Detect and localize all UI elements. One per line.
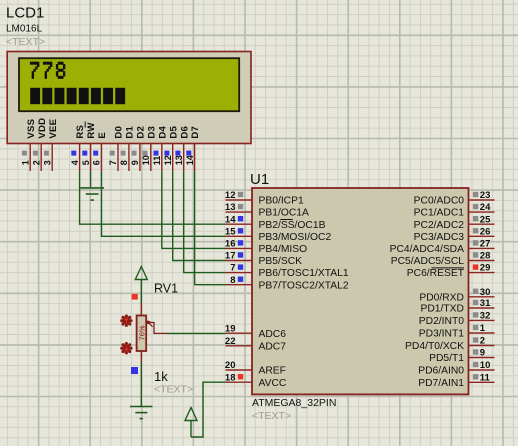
LCD pin 13 D6 xyxy=(174,126,190,171)
LCD pin 7 D0 xyxy=(108,126,124,171)
chip U1 pin 7 PB6/TOSC1/XTAL1 xyxy=(226,263,349,280)
LCD pin 4 RS xyxy=(70,124,86,171)
svg-text:PB6/TOSC1/XTAL1: PB6/TOSC1/XTAL1 xyxy=(259,268,349,279)
wire D7 LCD14 to U1-8 xyxy=(195,171,226,285)
RV1 wiper wire to ADC6 xyxy=(148,323,167,334)
svg-text:PB4/MISO: PB4/MISO xyxy=(259,244,308,255)
LCD pin 8 D1 xyxy=(119,125,135,171)
LCD pin 12 D5 xyxy=(163,125,179,171)
chip U1 pin 1 PD3/INT1 xyxy=(419,323,495,340)
svg-text:PD1/TXD: PD1/TXD xyxy=(421,304,465,315)
wire E LCD6 to U1-15 xyxy=(102,171,226,236)
wire D5 LCD12 to U1-17 xyxy=(173,171,226,261)
LCD pin 2 VDD xyxy=(31,118,47,171)
chip U1 pin 26 PC3/ADC3 xyxy=(414,226,495,243)
svg-text:8: 8 xyxy=(230,275,235,286)
wire RS LCD4 to U1-14 xyxy=(80,171,226,224)
svg-text:RS: RS xyxy=(75,124,86,138)
svg-text:D4: D4 xyxy=(157,125,168,138)
svg-text:19: 19 xyxy=(225,323,236,334)
svg-text:PB0/ICP1: PB0/ICP1 xyxy=(259,196,304,207)
wire RW LCD5 to ground xyxy=(90,171,92,187)
chip U1 pin 29 PC6/RESET xyxy=(407,263,495,280)
svg-text:1k: 1k xyxy=(154,369,168,384)
svg-text:PC1/ADC1: PC1/ADC1 xyxy=(414,208,465,219)
svg-text:PD4/T0/XCK: PD4/T0/XCK xyxy=(405,341,464,352)
svg-text:PC6/RESET: PC6/RESET xyxy=(407,268,465,279)
svg-text:RV1: RV1 xyxy=(154,282,178,296)
chip U1 pin 30 PD0/RXD xyxy=(419,287,494,304)
svg-text:D0: D0 xyxy=(114,126,125,139)
svg-text:18: 18 xyxy=(225,372,236,383)
resistor RV1 top lead xyxy=(140,303,142,316)
svg-text:PD2/INT0: PD2/INT0 xyxy=(419,316,464,327)
power terminal (AVCC) xyxy=(185,408,197,438)
chip U1 pin 27 PC4/ADC4/SDA xyxy=(390,239,495,256)
chip U1 pin 28 PC5/ADC5/SCL xyxy=(391,251,495,268)
svg-text:ATMEGA8_32PIN: ATMEGA8_32PIN xyxy=(252,397,336,409)
svg-text:ADC7: ADC7 xyxy=(259,341,287,352)
svg-text:22: 22 xyxy=(225,336,236,347)
wire D4 LCD11 to U1-16 xyxy=(162,171,226,248)
svg-text:AVCC: AVCC xyxy=(259,378,287,389)
chip U1 pin 32 PD2/INT0 xyxy=(419,311,495,328)
svg-text:14: 14 xyxy=(225,214,236,225)
svg-text:PD3/INT1: PD3/INT1 xyxy=(419,329,464,340)
svg-text:25: 25 xyxy=(480,214,491,225)
logic state square (RV1 top) xyxy=(132,294,138,300)
svg-text:17: 17 xyxy=(225,251,236,262)
LCD pin 3 VEE xyxy=(42,118,58,171)
svg-text:31: 31 xyxy=(480,298,491,309)
svg-text:RW: RW xyxy=(86,122,97,139)
svg-text:32: 32 xyxy=(480,311,491,322)
svg-text:76%: 76% xyxy=(137,325,146,340)
svg-text:PD0/RXD: PD0/RXD xyxy=(419,292,464,303)
svg-text:30: 30 xyxy=(480,287,491,298)
chip U1 pin 8 PB7/TOSC2/XTAL2 xyxy=(226,275,349,292)
RV1 wiper arrow xyxy=(147,321,153,327)
chip U1 pin 9 PD5/T1 xyxy=(429,348,494,365)
ground (LCD RW) xyxy=(80,188,104,200)
svg-text:LM016L: LM016L xyxy=(6,24,43,35)
svg-text:9: 9 xyxy=(130,160,140,165)
svg-text:1: 1 xyxy=(480,323,486,334)
power terminal (RV1 top) xyxy=(135,267,147,304)
wire wiper to U1 ADC6 xyxy=(167,332,226,334)
RV1 adjust up icon xyxy=(120,315,132,327)
LCD bargraph blocks xyxy=(30,88,125,104)
svg-text:<TEXT>: <TEXT> xyxy=(252,410,291,422)
svg-text:12: 12 xyxy=(163,155,173,165)
svg-text:29: 29 xyxy=(480,263,491,274)
chip U1 pin 10 PD6/AIN0 xyxy=(418,360,494,377)
svg-text:D2: D2 xyxy=(136,126,147,139)
chip U1 pin 17 PB5/SCK xyxy=(225,251,302,268)
svg-text:7: 7 xyxy=(230,263,235,274)
svg-text:3: 3 xyxy=(42,160,52,165)
svg-text:E: E xyxy=(97,132,108,139)
svg-text:1: 1 xyxy=(20,160,30,165)
svg-text:8: 8 xyxy=(119,160,129,165)
svg-text:23: 23 xyxy=(480,190,491,201)
LCD pin 5 RW xyxy=(81,122,97,172)
chip U1 pin 25 PC2/ADC2 xyxy=(414,214,495,231)
LCD pin 9 D2 xyxy=(130,126,146,171)
chip U1 pin 23 PC0/ADC0 xyxy=(414,190,495,207)
LCD pin 10 D3 xyxy=(141,126,157,171)
svg-text:12: 12 xyxy=(225,190,236,201)
chip U1 pin 16 PB4/MISO xyxy=(225,239,307,256)
svg-text:11: 11 xyxy=(152,156,162,166)
LCD screen xyxy=(19,58,239,111)
svg-text:D1: D1 xyxy=(125,125,136,138)
svg-text:ADC6: ADC6 xyxy=(259,329,287,340)
chip U1 pin 15 PB3/MOSI/OC2 xyxy=(225,226,332,243)
svg-text:PC0/ADC0: PC0/ADC0 xyxy=(414,196,465,207)
svg-text:D5: D5 xyxy=(168,125,179,138)
svg-text:VDD: VDD xyxy=(37,118,48,139)
wire AVCC power to U1 pin 18 xyxy=(191,382,226,437)
svg-text:7: 7 xyxy=(108,160,118,165)
svg-text:24: 24 xyxy=(480,202,491,213)
LCD LCD1 body xyxy=(7,52,251,144)
svg-text:5: 5 xyxy=(81,160,91,165)
ground (RV1) xyxy=(130,407,153,419)
chip U1 pin 11 PD7/AIN1 xyxy=(418,372,494,389)
resistor RV1 body xyxy=(137,316,147,352)
chip U1 pin 18 AVCC xyxy=(225,372,287,389)
LCD pin 14 D7 xyxy=(185,126,201,171)
svg-text:PC5/ADC5/SCL: PC5/ADC5/SCL xyxy=(391,256,465,267)
svg-text:9: 9 xyxy=(480,348,485,359)
svg-text:15: 15 xyxy=(225,226,236,237)
svg-text:PB2/SS/OC1B: PB2/SS/OC1B xyxy=(259,220,326,231)
chip U1 pin 13 PB1/OC1A xyxy=(225,202,309,219)
resistor RV1 bottom lead xyxy=(140,351,142,362)
LCD pin 11 D4 xyxy=(152,125,168,171)
svg-text:11: 11 xyxy=(480,372,491,383)
svg-text:VEE: VEE xyxy=(48,118,59,138)
svg-text:14: 14 xyxy=(185,155,195,165)
LCD pin 6 E xyxy=(92,132,108,171)
svg-text:28: 28 xyxy=(480,251,491,262)
svg-text:<TEXT>: <TEXT> xyxy=(6,36,45,48)
logic state square (RV1 bottom) xyxy=(131,367,138,374)
svg-text:PB3/MOSI/OC2: PB3/MOSI/OC2 xyxy=(259,232,332,243)
svg-text:13: 13 xyxy=(225,202,236,213)
svg-text:10: 10 xyxy=(141,155,151,165)
svg-text:D7: D7 xyxy=(190,126,201,139)
svg-text:D3: D3 xyxy=(146,126,157,139)
svg-text:16: 16 xyxy=(225,239,236,250)
svg-text:VSS: VSS xyxy=(26,118,37,138)
svg-text:PB7/TOSC2/XTAL2: PB7/TOSC2/XTAL2 xyxy=(259,280,349,291)
svg-text:26: 26 xyxy=(480,226,491,237)
chip U1 pin 14 PB2/SS/OC1B xyxy=(225,214,326,231)
svg-text:PD5/T1: PD5/T1 xyxy=(429,353,464,364)
chip U1 pin 20 AREF xyxy=(225,360,286,377)
chip U1 pin 31 PD1/TXD xyxy=(421,298,495,315)
RV1 adjust down icon xyxy=(120,342,132,354)
chip U1 pin 2 PD4/T0/XCK xyxy=(405,336,494,353)
LCD pin 1 VSS xyxy=(20,118,36,171)
chip U1 body xyxy=(252,188,469,394)
chip U1 pin 12 PB0/ICP1 xyxy=(225,190,304,207)
chip U1 pin 24 PC1/ADC1 xyxy=(414,202,495,219)
svg-text:PD7/AIN1: PD7/AIN1 xyxy=(418,378,464,389)
svg-text:4: 4 xyxy=(70,160,80,165)
svg-text:PC4/ADC4/SDA: PC4/ADC4/SDA xyxy=(390,244,465,255)
svg-text:LCD1: LCD1 xyxy=(6,5,44,22)
svg-text:27: 27 xyxy=(480,239,491,250)
svg-text:13: 13 xyxy=(174,155,184,165)
LCD text 778 xyxy=(30,62,65,79)
svg-text:2: 2 xyxy=(31,160,41,165)
chip U1 pin 22 ADC7 xyxy=(225,336,286,353)
svg-text:D6: D6 xyxy=(179,126,190,139)
svg-text:10: 10 xyxy=(480,360,491,371)
svg-text:PB5/SCK: PB5/SCK xyxy=(259,256,303,267)
svg-text:PC3/ADC3: PC3/ADC3 xyxy=(414,232,465,243)
chip U1 pin 19 ADC6 xyxy=(225,323,286,340)
wire RV1 to ground xyxy=(140,362,142,406)
svg-text:AREF: AREF xyxy=(259,366,286,377)
svg-text:2: 2 xyxy=(480,336,485,347)
svg-text:U1: U1 xyxy=(250,171,269,188)
wire D6 LCD13 to U1-7 xyxy=(184,171,226,273)
svg-text:<TEXT>: <TEXT> xyxy=(154,383,193,395)
svg-text:PD6/AIN0: PD6/AIN0 xyxy=(418,366,464,377)
svg-text:20: 20 xyxy=(225,360,236,371)
svg-text:PC2/ADC2: PC2/ADC2 xyxy=(414,220,465,231)
svg-text:6: 6 xyxy=(92,160,102,165)
svg-text:PB1/OC1A: PB1/OC1A xyxy=(259,208,309,219)
